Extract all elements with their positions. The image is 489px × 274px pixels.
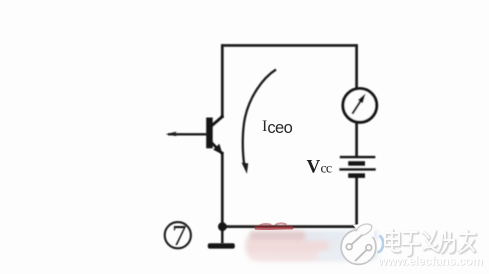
B1 plate long bottom [339, 168, 375, 170]
watermark url www.elecfans.com [377, 254, 484, 269]
figure number circle 7 [165, 220, 191, 252]
elecfans logo watermark circle [341, 222, 376, 264]
battery B1 (Vcc) [339, 157, 375, 178]
wire top horizontal [221, 44, 357, 47]
svg-text:V: V [307, 156, 321, 177]
watermark text highlight [385, 230, 475, 255]
wire battery to bottom corner [355, 177, 358, 228]
current arrow Iceo (curved) [242, 70, 276, 174]
wire emitter vertical [221, 152, 224, 227]
label Vcc [307, 156, 332, 177]
U1 needle [352, 101, 361, 114]
B1 plate long top [340, 156, 376, 158]
B1 plate short thick 2 [348, 173, 365, 178]
red scribble marks on bottom wire [255, 223, 292, 228]
B1 plate short thick 1 [348, 161, 365, 166]
watermark text 电子发烧友 (approximated strokes) [386, 231, 476, 256]
pink blur watermark blob [245, 231, 378, 262]
svg-text:ceo: ceo [267, 119, 292, 137]
watermark blue swoosh [377, 236, 383, 253]
wire right vertical (top to meter) [355, 44, 358, 89]
label Iceo [262, 118, 293, 137]
Iceo arrowhead [242, 163, 249, 174]
Q1 base lead arrowhead [166, 132, 177, 137]
Q1 base bar [206, 118, 213, 149]
wire meter to battery [355, 122, 358, 157]
U1 needle arrowhead [358, 94, 366, 104]
Q1 emitter diagonal [211, 142, 223, 154]
svg-text:cc: cc [321, 162, 332, 177]
Q1 emitter arrowhead [213, 144, 222, 155]
svg-text:www.elecfans.com: www.elecfans.com [377, 254, 483, 268]
wire bottom horizontal [222, 225, 358, 228]
wire ground stem [221, 226, 224, 244]
Q1 collector diagonal [210, 116, 223, 127]
Q1 base lead [168, 133, 208, 135]
transistor Q1 [166, 116, 223, 155]
node A junction dot [218, 222, 227, 231]
meter U1 (current meter) [343, 89, 377, 123]
wire left vertical (collector feed) [221, 44, 224, 117]
ground [208, 243, 235, 248]
svg-text:7: 7 [172, 220, 187, 252]
logo inner link icon [352, 235, 363, 245]
